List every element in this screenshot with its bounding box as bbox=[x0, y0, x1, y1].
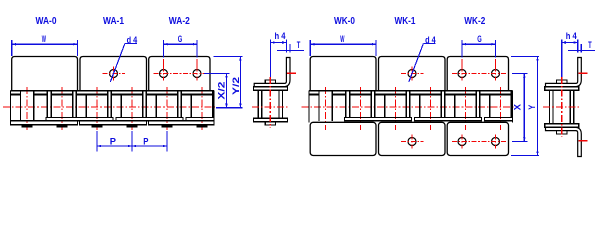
chain right end WA bbox=[213, 91, 215, 125]
pin head tabs WA bbox=[21, 125, 32, 128]
svg-text:WK-2: WK-2 bbox=[464, 16, 485, 27]
pin centerline WK p2 bbox=[395, 87, 397, 130]
hole centerline tick bottom WK bbox=[578, 140, 587, 142]
bent attachment top WK bbox=[546, 58, 582, 87]
hole crosshair vertical WA-2 bbox=[163, 67, 165, 81]
hole crosshair horizontal WA-2 bbox=[154, 73, 209, 75]
holes of WA-2 bbox=[160, 70, 168, 78]
svg-text:T: T bbox=[297, 40, 301, 51]
hole crosshair vertical WK-2 bottom bbox=[461, 135, 463, 149]
outer link plate bottom bands WA bbox=[11, 121, 78, 125]
pin centerline WK p5 bbox=[500, 87, 502, 130]
hole centerline tick WA bbox=[287, 72, 296, 74]
svg-text:P: P bbox=[143, 137, 149, 148]
hole of WA-1 bbox=[110, 70, 118, 78]
attachment plate WK-0 bbox=[310, 57, 376, 91]
dimension d4 leader bbox=[125, 42, 137, 44]
inner plate top edge band WK bbox=[309, 93, 319, 95]
dimension P pitch bbox=[96, 131, 98, 152]
svg-text:P: P bbox=[110, 137, 117, 148]
centerline horizontal WK bbox=[302, 106, 515, 108]
holes of WK-2 bottom bbox=[458, 138, 466, 146]
centerline vertical endview WA bbox=[269, 77, 271, 128]
pin centerline WA p2 bbox=[96, 87, 98, 130]
pin centerline WK p4 bbox=[465, 87, 467, 130]
hole crosshair vertical WA-1 bbox=[113, 67, 115, 81]
centerline horizontal WA bbox=[3, 106, 216, 108]
svg-text:h 4: h 4 bbox=[275, 31, 287, 42]
svg-text:WA-1: WA-1 bbox=[103, 16, 124, 27]
outer plate top band WA bbox=[253, 87, 287, 91]
svg-text:G: G bbox=[477, 34, 482, 45]
dimension G bbox=[461, 40, 463, 58]
pin centerline WA p5 bbox=[201, 87, 203, 130]
dimension W bbox=[11, 40, 13, 56]
side plate inner line right WA bbox=[278, 90, 280, 118]
hole crosshair vertical WK-2 bbox=[461, 67, 463, 81]
hole crosshair vertical WK-1 bbox=[411, 67, 413, 81]
dimension W bbox=[309, 40, 311, 56]
attachment plate WA-0 bbox=[12, 57, 78, 91]
attachment plate WK-1 bottom bbox=[379, 122, 446, 155]
hole crosshair horizontal WA-1 bbox=[103, 73, 126, 75]
hole of WK-1 bbox=[408, 70, 416, 78]
svg-text:Y: Y bbox=[527, 104, 538, 110]
chain left end WK bbox=[308, 91, 310, 123]
hole crosshair horizontal WK-1 bottom bbox=[401, 141, 424, 143]
bent attachment bottom WK bbox=[546, 127, 582, 156]
svg-text:WA-0: WA-0 bbox=[36, 16, 57, 27]
pin centerline WA p1 bbox=[61, 87, 63, 130]
svg-text:WK-1: WK-1 bbox=[395, 16, 416, 27]
pin boss top WA bbox=[265, 80, 275, 83]
attachment plate WK-2 bottom bbox=[447, 122, 508, 155]
pin centerline WK p0 bbox=[325, 87, 327, 130]
pin boss bottom WA bbox=[265, 122, 275, 125]
pin boss top WK bbox=[557, 80, 567, 83]
attachment plate WK-1 bbox=[379, 57, 446, 91]
pin centerline WA p4 bbox=[166, 87, 168, 130]
hole crosshair vertical WK-1 bottom bbox=[411, 135, 413, 149]
svg-text:Y/2: Y/2 bbox=[231, 77, 242, 95]
hole crosshair vertical WA-2 bbox=[196, 67, 198, 81]
svg-text:W: W bbox=[42, 34, 46, 45]
attachment plate WK-0 bottom bbox=[310, 122, 376, 155]
outer plate top band WK bbox=[545, 87, 579, 91]
hole crosshair vertical WK-2 bottom bbox=[495, 135, 497, 149]
centerline vertical endview WK bbox=[561, 77, 563, 137]
side plate inner line right WK bbox=[569, 90, 571, 124]
svg-text:G: G bbox=[178, 34, 183, 45]
hole center stub bbox=[163, 59, 165, 67]
attachment plate WA-2 bbox=[149, 57, 210, 91]
svg-text:T: T bbox=[588, 40, 592, 51]
centerline horizontal endview WK bbox=[543, 106, 580, 108]
svg-text:d 4: d 4 bbox=[127, 35, 138, 46]
chain right end WK bbox=[512, 91, 514, 123]
hole crosshair horizontal WK-1 bbox=[401, 73, 424, 75]
dimension h4 WA bbox=[269, 40, 271, 78]
dimension Y/2 bbox=[213, 56, 242, 58]
pin centerline WA p3 bbox=[131, 87, 133, 130]
attachment plate WA-1 bbox=[80, 57, 147, 91]
side plate inner line left WA bbox=[261, 90, 263, 118]
inner plate top edge band WA bbox=[11, 93, 21, 95]
centerline horizontal endview WA bbox=[252, 106, 289, 108]
chain left end WA bbox=[10, 91, 12, 125]
outer plate bottom band WA bbox=[253, 118, 287, 122]
hole centerline tick WK bbox=[578, 72, 587, 74]
hole crosshair vertical WK-2 bbox=[495, 67, 497, 81]
dimension h4 WK bbox=[561, 40, 563, 78]
link body WK bbox=[550, 90, 574, 124]
pin centerline WA p0 bbox=[26, 87, 28, 130]
side plate inner line left WK bbox=[552, 90, 554, 124]
dimension X/2 bbox=[204, 72, 230, 74]
pin boss bottom WK bbox=[557, 131, 567, 134]
hole of WK-1 bottom bbox=[408, 138, 416, 146]
svg-text:d 4: d 4 bbox=[425, 35, 436, 46]
dimension Y bbox=[511, 56, 539, 58]
chain top edge WA bbox=[11, 90, 215, 92]
attachment plate WK-2 bbox=[447, 57, 508, 91]
dimension T WK bbox=[568, 50, 595, 52]
inner link plate bottom bands WA bbox=[46, 118, 113, 121]
svg-text:h 4: h 4 bbox=[566, 31, 578, 42]
outer plate bottom band WK bbox=[545, 124, 579, 128]
svg-text:WK-0: WK-0 bbox=[334, 16, 355, 27]
link body WA bbox=[258, 90, 282, 118]
svg-text:WA-2: WA-2 bbox=[169, 16, 190, 27]
pin centerline WK p3 bbox=[430, 87, 432, 130]
hole crosshair horizontal WK-2 bottom bbox=[452, 141, 507, 143]
hole center stub bbox=[461, 59, 463, 67]
roller and bushing verticals WK bbox=[318, 91, 320, 121]
svg-text:X: X bbox=[512, 103, 523, 110]
chain top edge WK bbox=[309, 90, 513, 92]
inner link plate bottom bands WK bbox=[345, 118, 412, 121]
svg-text:W: W bbox=[340, 34, 344, 45]
dimension G bbox=[163, 40, 165, 58]
dimension d4 leader bbox=[423, 42, 435, 44]
svg-text:X/2: X/2 bbox=[217, 82, 228, 100]
hole crosshair horizontal WK-2 bbox=[452, 73, 507, 75]
dimension T WA bbox=[277, 50, 304, 52]
bent attachment top WA bbox=[254, 58, 290, 87]
hole center stub bbox=[196, 59, 198, 67]
dimension X bbox=[512, 72, 528, 74]
hole center stub bbox=[495, 59, 497, 67]
holes of WK-2 bbox=[458, 70, 466, 78]
roller and bushing verticals WA bbox=[19, 91, 21, 121]
pin centerline WK p1 bbox=[360, 87, 362, 130]
